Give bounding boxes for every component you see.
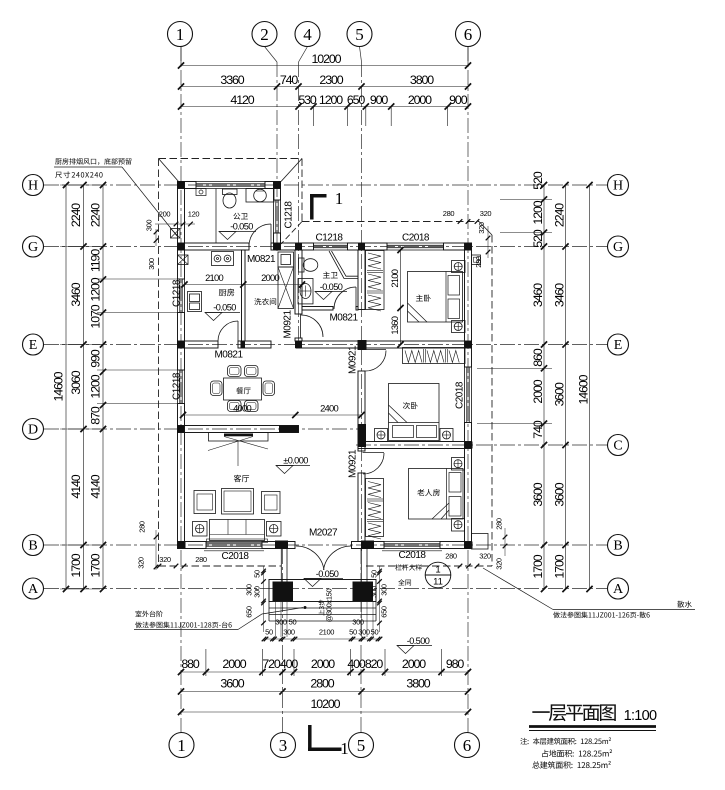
column axis1/D: [178, 426, 185, 433]
svg-text:740: 740: [531, 420, 545, 439]
window C1218 in WC east wall: [273, 200, 275, 233]
svg-text:10200: 10200: [311, 697, 341, 711]
top dimension line 10200: [181, 65, 468, 67]
svg-text:A: A: [28, 582, 39, 597]
apron step box outside southeast corner: [472, 534, 489, 550]
roof overhang dashed outline west side: [158, 159, 160, 567]
interior dimension dining 4000/2400: [183, 414, 362, 416]
svg-text:-0.050: -0.050: [316, 569, 339, 579]
svg-text:870: 870: [89, 406, 103, 425]
master bedroom nightstand north: [452, 261, 466, 273]
svg-text:50: 50: [370, 570, 379, 578]
axis bubble D left: [23, 419, 44, 440]
svg-text:320: 320: [495, 558, 504, 570]
svg-text:M0821: M0821: [247, 254, 276, 265]
svg-text:E: E: [29, 338, 38, 353]
door M0921 of second bedroom (leaf and arc): [365, 349, 386, 351]
section mark 1-1 top: [310, 194, 327, 198]
east wall lower segment: [465, 423, 472, 549]
svg-text:1200: 1200: [89, 277, 103, 301]
TV projection lines: [208, 437, 253, 451]
living room left armchair: [194, 491, 216, 514]
roof hip diagonal northeast corner: [479, 222, 492, 236]
bottom dimension row 880/2000/720/400/2000/400/820/2000/980: [181, 671, 468, 673]
svg-text:-0.500: -0.500: [407, 636, 430, 646]
window C2018 in G wall (master bedroom): [387, 242, 444, 244]
svg-text:3460: 3460: [553, 283, 567, 307]
window sill ledge below elder room window: [382, 550, 442, 552]
axis bubble 4 top: [295, 22, 320, 47]
svg-text:320: 320: [159, 555, 171, 564]
room label dining room: [236, 387, 250, 394]
svg-text:14600: 14600: [577, 374, 591, 404]
axis5 wall segment between doors: [358, 371, 365, 451]
svg-text:B: B: [613, 539, 622, 554]
G wall west segment (WC south): [178, 243, 250, 250]
svg-text:M0921: M0921: [348, 345, 359, 374]
svg-text:120: 120: [188, 210, 200, 219]
porch jamb lines west: [280, 549, 282, 582]
right extension lines: [500, 198, 552, 200]
svg-text:C2018: C2018: [402, 233, 430, 244]
porch column southeast: [353, 582, 374, 602]
E wall segment west of kitchen door: [178, 341, 219, 348]
master bath south wall west segment: [302, 307, 333, 311]
room label living room: [234, 475, 249, 482]
south wall B east segment: [440, 542, 472, 549]
svg-text:3800: 3800: [410, 73, 434, 87]
svg-text:1700: 1700: [553, 554, 567, 578]
axis line 5 vertical: [360, 47, 362, 63]
svg-text:2100: 2100: [205, 272, 223, 283]
axis line C horizontal (right part): [356, 444, 607, 446]
public WC toilet: [223, 189, 238, 195]
roof hip diagonal at WC southeast: [281, 222, 302, 245]
axis bubble A left: [23, 578, 44, 599]
column axis1/G: [178, 243, 185, 250]
roof overhang dashed top of WC block: [159, 158, 303, 160]
title first floor plan: [532, 704, 615, 721]
svg-text:2240: 2240: [89, 203, 103, 227]
axis bubble E right: [608, 334, 629, 355]
svg-text:3600: 3600: [553, 482, 567, 506]
svg-text:1: 1: [435, 565, 440, 576]
title note line 1 floor area: [520, 737, 611, 744]
svg-text:280: 280: [474, 256, 483, 268]
laundry washer box: [278, 252, 294, 267]
svg-text:1: 1: [176, 25, 185, 44]
room label elder room: [417, 489, 440, 496]
svg-text:1200: 1200: [319, 93, 343, 107]
svg-text:880: 880: [181, 657, 200, 671]
master bath basin: [298, 279, 313, 304]
master bath south wall east stub: [356, 307, 358, 311]
svg-text:3800: 3800: [406, 677, 430, 691]
svg-text:2000: 2000: [261, 272, 279, 283]
axis line H horizontal: [44, 184, 607, 186]
porch side dim chain west: [263, 566, 265, 632]
WC east wall lower segment: [274, 233, 281, 250]
svg-text:4000: 4000: [233, 403, 251, 414]
svg-text:50: 50: [349, 628, 357, 637]
svg-text:2400: 2400: [320, 403, 338, 414]
svg-text:980: 980: [446, 657, 465, 671]
right dimension line majors: [565, 185, 567, 589]
svg-text:B: B: [28, 539, 37, 554]
axis line 6 vertical: [467, 46, 469, 733]
door M0921 of laundry in axis4 wall (leaf and arc): [300, 315, 302, 338]
north wall H west segment: [178, 182, 197, 189]
elder room nightstand north: [452, 458, 465, 471]
room label second bedroom: [403, 402, 418, 409]
svg-text:4140: 4140: [89, 474, 103, 498]
elder room wardrobe with hangers: [366, 479, 384, 537]
window in H wall (WC): [196, 181, 265, 183]
public WC shower head: [196, 189, 206, 196]
svg-text:6: 6: [463, 736, 472, 755]
porch jamb lines east: [360, 549, 362, 582]
svg-text:650: 650: [347, 93, 366, 107]
section mark 1-1 bottom: [308, 725, 312, 751]
svg-text:C1218: C1218: [172, 372, 183, 400]
axis bubble B right: [608, 535, 629, 556]
top extension drop lines: [313, 107, 315, 127]
door M0821 of public WC (leaf and arc): [270, 224, 272, 246]
E wall long segment to east wall: [296, 341, 472, 348]
top dimension line third row 4120/530/1200/650/900/2000/900: [181, 106, 468, 108]
east wall upper segment: [465, 243, 472, 367]
left dimension line majors 2240/3460/3060/4140/1700: [83, 185, 85, 589]
svg-text:4120: 4120: [230, 93, 254, 107]
svg-text:2300: 2300: [319, 73, 343, 87]
svg-text:300: 300: [358, 628, 370, 637]
svg-text:1:100: 1:100: [624, 708, 657, 724]
svg-text:2000: 2000: [402, 657, 426, 671]
svg-text:3360: 3360: [220, 73, 244, 87]
axis bubble H right: [608, 175, 629, 196]
svg-text:14600: 14600: [52, 371, 66, 401]
window C2018 east wall second bedroom: [464, 367, 466, 423]
C wall (elder room north): [358, 442, 472, 449]
svg-text:1700: 1700: [69, 553, 83, 577]
axis bubble E left: [23, 334, 44, 355]
room label laundry: [254, 298, 276, 305]
window C1218 west wall dining: [177, 370, 179, 404]
svg-text:-0.050: -0.050: [320, 282, 343, 292]
second bedroom nightstand west: [375, 429, 388, 442]
master bedroom wardrobe with hangers: [366, 251, 385, 310]
svg-text:300: 300: [145, 220, 154, 232]
svg-text:-0.050: -0.050: [230, 222, 253, 232]
axis bubble B left: [23, 535, 44, 556]
porch slab outline: [269, 580, 376, 602]
bottom dimension row 10200: [181, 711, 468, 713]
note apron (sanshui) text: [677, 601, 692, 608]
door jamb column B east: [361, 541, 374, 550]
svg-text:520: 520: [531, 229, 545, 248]
axis bubble 1 top: [168, 22, 193, 47]
svg-text:990: 990: [89, 349, 103, 368]
svg-text:900: 900: [370, 93, 389, 107]
svg-text:50: 50: [253, 570, 262, 578]
elder room bed: [409, 469, 464, 520]
svg-text:280: 280: [195, 555, 207, 564]
svg-text:320: 320: [477, 222, 486, 234]
axis5 wall lower segment: [358, 473, 365, 542]
entrance double door M2027 arcs: [296, 546, 324, 570]
leader line kitchen exhaust note: [54, 166, 122, 168]
roof hip diagonal top-left: [159, 159, 179, 182]
svg-text:1070: 1070: [89, 304, 103, 328]
master bath toilet: [299, 258, 305, 272]
svg-text:530: 530: [298, 93, 317, 107]
living room coffee table: [222, 489, 254, 515]
entrance steps 3 treads: [269, 607, 376, 609]
svg-text:3460: 3460: [531, 283, 545, 307]
bottom porch step dimensions: [264, 638, 380, 640]
master bath shower enclosure lines: [329, 251, 358, 279]
svg-text:3600: 3600: [220, 677, 244, 691]
TV dark screen bar: [224, 434, 253, 437]
svg-text:320: 320: [137, 557, 146, 569]
svg-text:400: 400: [347, 657, 366, 671]
svg-text:300: 300: [380, 584, 389, 596]
axis bubble 2 top: [252, 22, 277, 47]
elder room nightstand south: [452, 519, 465, 532]
svg-text:±0.000: ±0.000: [283, 456, 308, 466]
axis line 5 bottom segment: [360, 549, 362, 733]
leader line apron note with arrow: [553, 609, 695, 611]
south wall B west segment: [178, 542, 207, 549]
svg-text:300: 300: [147, 258, 156, 270]
flue box outside east wall below G: [472, 255, 481, 265]
second bedroom bed: [389, 384, 440, 441]
svg-text:650: 650: [245, 606, 254, 618]
living room right armchair: [262, 492, 281, 514]
dining chairs: [228, 366, 242, 377]
axis line A horizontal: [44, 588, 607, 590]
left dimension line subdivisions: [102, 185, 104, 589]
axis line 3 vertical (bottom only): [282, 549, 284, 733]
axis bubble 3 bottom: [271, 733, 296, 758]
bearing wall chunk axis5 D-to-C: [358, 424, 367, 447]
svg-text:320: 320: [480, 209, 492, 218]
svg-text:C2018: C2018: [222, 551, 250, 562]
porch pad extension lines to dim row: [275, 602, 277, 638]
svg-text:1190: 1190: [89, 249, 103, 272]
svg-text:4140: 4140: [69, 474, 83, 498]
interior dimension kitchen/laundry 2100/2000: [185, 284, 303, 286]
axis5 wall segment G to master-bedroom opening: [358, 250, 365, 310]
svg-text:820: 820: [365, 657, 384, 671]
svg-text:300: 300: [370, 586, 379, 598]
column axis6/B: [465, 542, 473, 549]
column axis1/H: [178, 182, 185, 189]
apron dashed south edge east part: [366, 565, 492, 567]
D wall (dining/living partition): [178, 426, 299, 433]
axis bubble 6 bottom: [455, 733, 480, 758]
leader line outdoor steps: [134, 629, 238, 631]
axis4 wall stub below door: [295, 338, 302, 341]
G wall segment to laundry window: [271, 243, 314, 250]
svg-text:C1218: C1218: [284, 201, 295, 229]
svg-text:C1218: C1218: [172, 279, 183, 307]
bottom dimension row 3600/2800/3800: [181, 691, 468, 693]
svg-text:1360: 1360: [389, 316, 400, 334]
svg-text:A: A: [613, 582, 624, 597]
svg-text:2100: 2100: [319, 628, 334, 637]
apron dashed south edge west part: [159, 565, 282, 567]
axis bubble A right: [608, 578, 629, 599]
roof hip diagonal top-right: [281, 159, 302, 182]
svg-text:-0.050: -0.050: [213, 303, 236, 313]
second bedroom wardrobe with hangers: [403, 348, 466, 364]
svg-text:E: E: [614, 338, 623, 353]
axis line B horizontal: [44, 544, 607, 546]
svg-text:2000: 2000: [408, 93, 432, 107]
column axis5/E: [358, 340, 367, 350]
living room side table west with lamp: [193, 522, 208, 537]
svg-text:H: H: [613, 179, 623, 194]
axis4 wall upper segment: [295, 250, 302, 314]
room label master bedroom: [416, 294, 431, 301]
window C2018 in B wall elder room: [384, 541, 440, 543]
note outdoor steps text: [135, 611, 162, 618]
svg-text:M0921: M0921: [348, 449, 359, 478]
axis line G horizontal: [44, 246, 607, 248]
svg-text:1: 1: [177, 736, 186, 755]
north wall H east segment: [265, 182, 281, 189]
west wall segment H-to-kitchen-window: [178, 182, 185, 280]
window C1218 in G wall (laundry): [314, 242, 348, 244]
flue box with X in kitchen corner: [178, 255, 189, 265]
column axis6/G: [465, 243, 472, 250]
top extension lines from axis bubbles: [180, 46, 182, 66]
svg-text:M0921: M0921: [283, 310, 294, 339]
svg-text:2000: 2000: [222, 657, 246, 671]
svg-text:1700: 1700: [89, 553, 103, 577]
column axis4/E: [295, 341, 302, 348]
door jamb column B west: [275, 541, 288, 550]
living room three-seat sofa: [210, 520, 265, 541]
svg-text:1200: 1200: [531, 200, 545, 224]
G wall segment between windows: [348, 243, 388, 250]
west wall segment dining-window-to-B: [178, 404, 185, 542]
svg-text:2100: 2100: [389, 269, 400, 287]
svg-text:1: 1: [340, 739, 349, 758]
svg-text:50: 50: [265, 628, 273, 637]
column axis6/E: [465, 341, 472, 348]
bottom extension lines: [205, 649, 207, 676]
svg-text:2: 2: [260, 25, 269, 44]
svg-text:400: 400: [280, 657, 299, 671]
svg-text:50: 50: [371, 628, 379, 637]
column axis5/G: [358, 243, 365, 250]
svg-text:@300x150: @300x150: [325, 589, 334, 623]
column axis2/G: [274, 243, 281, 250]
E wall segment kitchen-to-laundry-opening: [238, 341, 271, 348]
svg-text:2240: 2240: [69, 203, 83, 227]
svg-text:D: D: [28, 423, 38, 438]
bearing wall chunk D east end: [279, 426, 299, 433]
svg-text:280: 280: [445, 552, 457, 561]
south wall B left-of-door segment: [262, 542, 295, 549]
public WC basin counter: [246, 189, 274, 203]
living room side table east with lamp: [267, 522, 282, 537]
note kitchen exhaust vent text: [55, 158, 131, 165]
column axis6/C: [465, 442, 473, 449]
svg-text:10200: 10200: [312, 52, 342, 66]
column axis4/G: [295, 243, 302, 250]
interior dimension master bedroom 2100/1360: [400, 250, 402, 345]
svg-text:650: 650: [380, 606, 389, 618]
door M0921 of elder room (leaf and arc): [363, 452, 385, 454]
axis bubble C right: [608, 435, 629, 456]
WC east wall upper segment: [274, 182, 281, 201]
axis line D horizontal (left part): [44, 428, 360, 430]
roof overhang dashed east edge of WC block: [301, 159, 303, 222]
svg-text:860: 860: [531, 348, 545, 367]
svg-text:1200: 1200: [89, 374, 103, 398]
G wall east segment: [444, 243, 472, 250]
title note line 3 total area: [532, 761, 610, 769]
title underline double rule: [529, 725, 656, 728]
svg-text:C2018: C2018: [455, 381, 466, 409]
svg-text:2000: 2000: [531, 379, 545, 403]
left extension lines at axes: [60, 184, 100, 186]
svg-text:G: G: [613, 240, 623, 255]
top dimension line second row 3360/740/2300/3800: [181, 86, 468, 88]
svg-text:200: 200: [159, 210, 171, 219]
svg-text:1700: 1700: [531, 554, 545, 578]
porch column southwest: [273, 582, 294, 602]
svg-text:3600: 3600: [531, 482, 545, 506]
axis line 1 vertical: [180, 46, 182, 733]
svg-text:3600: 3600: [553, 382, 567, 406]
left extension lines from west windows: [97, 278, 178, 280]
svg-text:300: 300: [245, 584, 254, 596]
svg-text:300: 300: [253, 586, 262, 598]
public WC shower partition line: [215, 189, 217, 244]
west wall segment between windows: [178, 313, 185, 371]
svg-text:H: H: [28, 179, 38, 194]
svg-text:900: 900: [449, 93, 468, 107]
svg-text:50: 50: [289, 618, 297, 627]
window sill ledge below living room window: [204, 550, 264, 552]
svg-text:5: 5: [355, 25, 364, 44]
svg-text:2800: 2800: [310, 677, 334, 691]
svg-text:M2027: M2027: [309, 528, 338, 539]
svg-text:720: 720: [262, 657, 281, 671]
svg-text:2240: 2240: [553, 203, 567, 227]
svg-text:M0821: M0821: [329, 313, 358, 324]
svg-text:520: 520: [531, 171, 545, 190]
kitchen-laundry thin wall: [242, 250, 246, 341]
svg-text:C2018: C2018: [399, 550, 427, 561]
svg-text:280: 280: [443, 209, 455, 218]
door M0821 of master bath (leaf and arc): [355, 287, 357, 309]
kitchen sink double basin: [188, 292, 202, 312]
svg-text:3460: 3460: [69, 282, 83, 306]
axis bubble 1 bottom: [169, 733, 194, 758]
svg-text:280: 280: [138, 521, 147, 533]
svg-text:3: 3: [279, 736, 288, 755]
TV cabinet on D wall: [209, 433, 269, 442]
left dimension line 14600: [65, 185, 67, 589]
svg-text:320: 320: [479, 552, 491, 561]
svg-text:6: 6: [464, 25, 473, 44]
svg-text:11: 11: [433, 577, 443, 588]
